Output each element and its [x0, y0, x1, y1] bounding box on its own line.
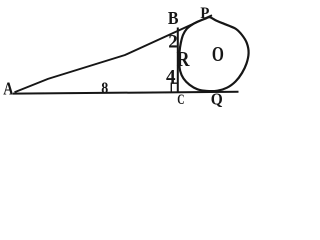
- line AQ (horizontal line through A, C, Q): [13, 92, 239, 94]
- svg-text:A: A: [3, 79, 13, 99]
- segment BC (vertical tangent touching circle at R): [177, 28, 179, 94]
- svg-text:4: 4: [166, 67, 176, 88]
- svg-text:8: 8: [101, 80, 108, 97]
- svg-text:Q: Q: [211, 89, 223, 108]
- right angle mark at C: [171, 83, 178, 92]
- line AP (tangent from A through B to P): [15, 15, 213, 92]
- circle O: [179, 17, 248, 91]
- svg-text:O: O: [212, 42, 224, 66]
- svg-text:B: B: [168, 8, 179, 28]
- svg-text:P: P: [200, 5, 210, 22]
- svg-text:C: C: [177, 92, 184, 108]
- svg-text:R: R: [177, 47, 191, 71]
